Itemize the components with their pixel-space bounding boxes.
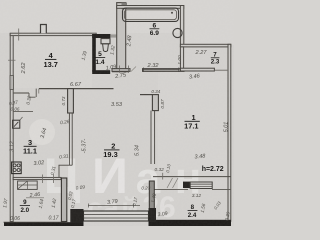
- balcony window band: [84, 211, 149, 221]
- room7 door line: [214, 69, 228, 71]
- corridor wall left segment: [13, 92, 29, 94]
- outer wall left (double line): [10, 34, 13, 222]
- bath top wall: [117, 6, 184, 9]
- tick on top wall: [18, 29, 20, 41]
- corridor wall step: [29, 93, 36, 97]
- dim line 2.75: [112, 71, 129, 73]
- paper background: [0, 0, 234, 226]
- wc left wall (black): [92, 34, 96, 72]
- toilet WC: [101, 39, 110, 44]
- bath block left wall column: [117, 3, 126, 72]
- dim line bottom 0.06-0.17: [4, 221, 66, 223]
- lighter patch room1: [158, 72, 228, 172]
- lighter zone outside top-right: [185, 0, 234, 45]
- divider column B: [152, 95, 158, 111]
- room1 loggia wall outer line: [153, 176, 231, 178]
- dim line 3.79: [88, 205, 140, 207]
- room7 top outer wall: [180, 44, 230, 47]
- stove room3: [12, 162, 22, 174]
- corridor door jamb: [35, 89, 37, 97]
- hall jog wall vertical: [58, 165, 60, 178]
- wc top wall niche segment: [110, 34, 116, 37]
- loggia window: [190, 182, 212, 189]
- bottom wall pier right: [149, 208, 157, 222]
- hall jog wall horizontal: [59, 164, 73, 166]
- kitchen wall room9 top: [13, 177, 61, 179]
- counter room9: [18, 181, 38, 189]
- window mark on left wall: [10, 76, 13, 90]
- block junction smudge: [122, 3, 128, 10]
- electric panel room3: [13, 120, 20, 128]
- outer wall right: [228, 44, 231, 221]
- dim line 2.46: [26, 197, 44, 199]
- lighter patch room4: [14, 36, 92, 88]
- divider thin wall rooms 1-2: [150, 111, 152, 164]
- dim line 2.32: [143, 69, 180, 71]
- bathtub tap dot: [171, 12, 173, 14]
- watermark circle blob: [29, 119, 55, 145]
- outer wall top room4: [10, 33, 96, 35]
- loggia wall inner line right: [212, 189, 231, 191]
- bath door gap hatch: [131, 67, 136, 72]
- vent bump on top wall: [41, 25, 47, 34]
- room7 left wall: [180, 47, 183, 71]
- loggia wall tick: [162, 173, 164, 180]
- lighter zone outside top: [0, 0, 234, 33]
- kitchen wall tick 1: [42, 175, 44, 184]
- bathtub: [123, 8, 179, 21]
- room3 right wall double: [68, 113, 70, 165]
- bath right wall: [180, 6, 183, 47]
- bath bottom wall right segment: [143, 69, 185, 72]
- loggia left wall: [149, 181, 154, 221]
- bathroom sink: [173, 28, 182, 37]
- corridor wall top (6.67 wall): [39, 88, 114, 90]
- room7 bottom wall: [180, 68, 214, 71]
- kitchen wall tick 2: [53, 175, 55, 184]
- wc bottom wall (black): [92, 70, 110, 74]
- hall column A: [68, 89, 74, 113]
- tick on left wall: [8, 59, 16, 61]
- divider stub room1: [140, 94, 152, 96]
- room9 right wall: [61, 178, 66, 222]
- paper grain overlay: [0, 0, 234, 226]
- loggia wall black chunk: [183, 182, 190, 188]
- bottom outer wall right section: [149, 220, 232, 226]
- bottom outer wall left section: [4, 222, 84, 226]
- room3 top wall: [13, 110, 33, 112]
- bottom wall pier left: [70, 209, 83, 223]
- loggia wall inner line left: [153, 189, 188, 191]
- loggia door hatch: [167, 178, 173, 188]
- bath bottom wall left segment: [112, 69, 130, 72]
- wc top wall (black): [92, 34, 110, 38]
